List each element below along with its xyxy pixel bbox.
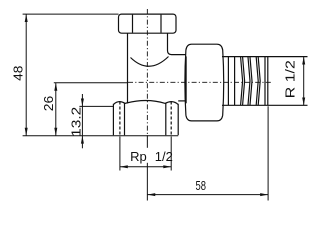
- svg-text:48: 48: [11, 66, 26, 81]
- svg-text:R 1/2: R 1/2: [282, 60, 297, 98]
- svg-text:58: 58: [196, 178, 207, 193]
- svg-text:13.2: 13.2: [69, 107, 84, 137]
- svg-text:1/2: 1/2: [155, 149, 173, 164]
- svg-text:Rp: Rp: [130, 149, 147, 164]
- svg-text:26: 26: [41, 96, 56, 112]
